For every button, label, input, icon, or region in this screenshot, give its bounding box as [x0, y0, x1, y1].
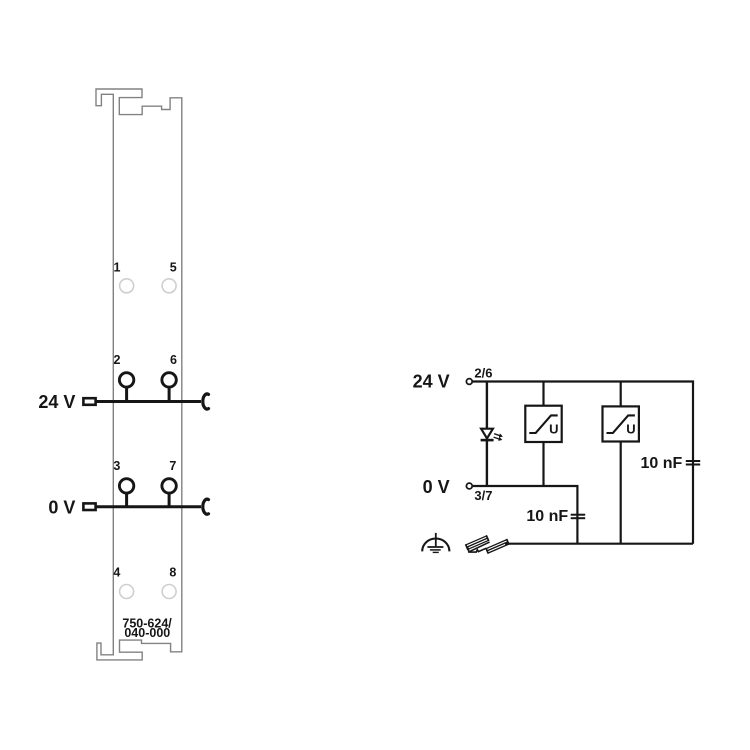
terminal 8 marker circle [162, 585, 176, 599]
filter U1 box [525, 406, 561, 442]
svg-text:10 nF: 10 nF [641, 455, 683, 472]
svg-text:0 V: 0 V [423, 477, 450, 497]
ground bus wire [505, 543, 693, 545]
module outline 750-624 [96, 89, 182, 660]
filter U1 lead top [542, 382, 544, 407]
terminal circle 2/6 [466, 379, 472, 385]
terminal 1 marker circle [120, 279, 134, 293]
svg-text:2: 2 [114, 353, 121, 367]
terminal screw 3 [119, 479, 133, 507]
0V feed wire [97, 505, 202, 508]
filter U2 lead bottom [620, 441, 622, 544]
svg-text:5: 5 [170, 261, 177, 275]
terminal 4 marker circle [120, 585, 134, 599]
svg-text:6: 6 [170, 353, 177, 367]
terminal screw 7 [162, 479, 176, 507]
svg-text:7: 7 [169, 459, 176, 473]
0V rail wire [473, 485, 579, 487]
svg-text:3: 3 [113, 459, 120, 473]
svg-text:U: U [626, 421, 635, 436]
svg-text:8: 8 [169, 566, 176, 580]
svg-text:1: 1 [114, 261, 121, 275]
svg-text:10 nF: 10 nF [526, 508, 568, 525]
LED branch wire [486, 382, 488, 487]
24V feed wire [97, 400, 202, 403]
svg-text:24 V: 24 V [38, 392, 75, 412]
svg-text:24 V: 24 V [413, 371, 450, 391]
terminal circle 3/7 [466, 483, 472, 489]
clamp arc 0V [203, 499, 209, 514]
svg-text:4: 4 [113, 566, 120, 580]
svg-text:U: U [549, 421, 558, 436]
clamp arc 24V [203, 394, 209, 409]
terminal square 0V [83, 503, 95, 510]
rail channel inner edge [469, 541, 490, 552]
capacitor C1 10 nF [571, 515, 586, 519]
svg-text:3/7: 3/7 [474, 488, 492, 503]
earth ground symbol [422, 533, 449, 553]
terminal screw 2 [119, 373, 133, 402]
capacitor C2 10 nF [686, 461, 700, 465]
terminal screw 6 [162, 373, 176, 402]
svg-text:0 V: 0 V [48, 497, 75, 517]
right vertical wire [692, 382, 694, 544]
filter U1 lead bottom [542, 442, 544, 487]
LED emission arrows [494, 434, 503, 441]
svg-text:040-000: 040-000 [124, 626, 170, 640]
DIN carrier rail symbol [465, 535, 510, 554]
LED D1 [481, 429, 494, 440]
filter U2 lead top [620, 382, 622, 407]
rail back flange band [465, 535, 490, 550]
filter U2 box [603, 406, 639, 441]
24V rail wire [473, 380, 694, 382]
rail bottom edge with notch [468, 548, 486, 553]
terminal 5 marker circle [162, 279, 176, 293]
capacitor C1 branch wire [576, 486, 578, 544]
terminal square 24V [83, 398, 95, 405]
svg-text:2/6: 2/6 [474, 366, 492, 381]
rail front flange band [485, 539, 510, 554]
